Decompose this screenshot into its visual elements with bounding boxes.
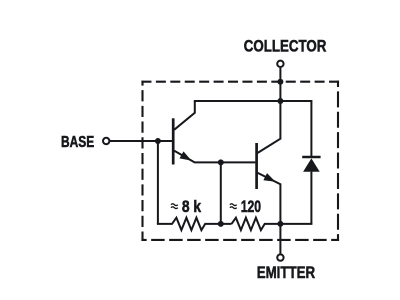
junction dot: collector rail: [277, 98, 283, 104]
resistor R2 120 zigzag + bottom rail right: [232, 218, 313, 230]
wire: base node down to 8k resistor: [157, 141, 159, 224]
diode D1 triangle: [303, 158, 320, 171]
svg-text:BASE: BASE: [61, 134, 94, 151]
terminal circle: COLLECTOR: [277, 61, 283, 67]
junction dot: collector at box edge: [277, 79, 283, 85]
diode D1 cathode lead from collector rail: [310, 101, 312, 157]
dashed package boundary: bottom edge: [141, 239, 339, 241]
transistor Q2 collector leg: [258, 101, 281, 153]
diode D1 cathode bar: [302, 156, 320, 159]
transistor Q2 emitter leg: [258, 173, 281, 224]
terminal circle: BASE: [103, 138, 109, 144]
approx symbol for 120: [230, 204, 237, 209]
approx symbol for 8 k: [171, 204, 178, 209]
terminal circle: EMITTER: [277, 254, 283, 260]
wire: collector lead from terminal down: [279, 68, 281, 101]
svg-text:EMITTER: EMITTER: [257, 263, 316, 282]
junction dot: base node: [155, 138, 161, 144]
dashed package boundary: left edge: [141, 81, 143, 241]
wire: BASE lead into box: [110, 140, 172, 142]
diode D1 anode lead to emitter rail: [310, 172, 312, 224]
junction dot: emitter node on bottom rail: [277, 221, 283, 227]
transistor Q2 emitter arrowhead: [263, 173, 275, 182]
transistor Q2 base bar: [255, 143, 258, 189]
resistor R1 8k zigzag + bottom emitter rail left: [157, 218, 232, 230]
transistor Q1 base bar: [172, 118, 175, 164]
svg-text:COLLECTOR: COLLECTOR: [244, 37, 326, 56]
dashed package boundary: right edge: [337, 81, 339, 241]
svg-text:8 k: 8 k: [182, 197, 202, 216]
wire: Q1 emitter node down to 120 resistor: [220, 162, 222, 224]
transistor Q1 emitter arrowhead: [180, 151, 192, 160]
wire: emitter lead out of box to terminal: [279, 224, 281, 254]
svg-text:120: 120: [241, 197, 261, 216]
transistor Q1 collector leg: [174, 101, 195, 130]
junction dot: 8k-120 node on bottom rail: [218, 221, 224, 227]
transistor Q1 emitter leg: [174, 151, 255, 163]
junction dot: Q1 emitter / Q2 base node: [218, 159, 224, 165]
dashed package boundary: top edge: [141, 81, 339, 83]
wire: top collector rail: [194, 100, 313, 102]
